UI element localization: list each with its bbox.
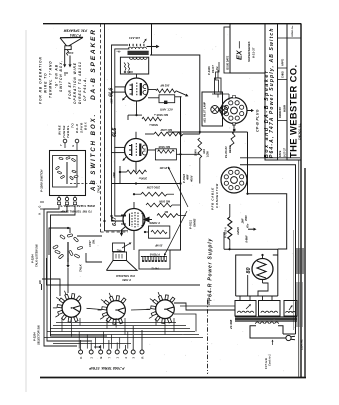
switch selector 3 xyxy=(156,300,175,319)
svg-text:.25 MF: .25 MF xyxy=(159,166,168,170)
title block issue-date cell xyxy=(224,27,230,73)
switch P-3204 talk-listen blades xyxy=(60,235,66,240)
wire arrow from socket xyxy=(248,110,252,112)
svg-text:50MA: 50MA xyxy=(195,149,198,156)
svg-text:CHKD: CHKD xyxy=(281,71,284,78)
wire arrow filter xyxy=(248,228,254,230)
resistor in box plate load xyxy=(155,149,176,160)
svg-text:⊙EL PILOT LAMP: ⊙EL PILOT LAMP xyxy=(204,102,207,123)
resistor long voltage divider xyxy=(154,132,183,136)
svg-text:746-T2: 746-T2 xyxy=(151,267,159,270)
svg-text:'G' ON AB: 'G' ON AB xyxy=(55,64,59,88)
scan speckles xyxy=(123,79,126,82)
transformer primary xyxy=(255,322,259,324)
rectifier circuit box xyxy=(236,255,253,296)
wire transformer B+ arrow xyxy=(147,46,157,48)
svg-text:G: G xyxy=(71,145,75,147)
svg-text:HERE: HERE xyxy=(228,145,232,153)
resistor 50MA adjustable xyxy=(198,138,202,158)
svg-text:SWITCH BOX,: SWITCH BOX, xyxy=(59,60,63,92)
transformer secondary box 1 xyxy=(235,301,256,317)
resistor 6J7 r2 xyxy=(146,203,172,207)
svg-text:500Kω: 500Kω xyxy=(149,123,158,127)
svg-text:1/2W: 1/2W xyxy=(207,151,210,157)
note separator dash xyxy=(64,72,68,74)
svg-text:44+: 44+ xyxy=(116,49,121,52)
speaker P-7089 cone xyxy=(106,261,137,271)
svg-text:6J7: 6J7 xyxy=(112,216,118,226)
svg-text:P64-R Power Supply: P64-R Power Supply xyxy=(208,238,214,301)
svg-text:PFB CABLE: PFB CABLE xyxy=(211,187,215,210)
wire AC run xyxy=(240,165,296,334)
svg-text:9-27-37: 9-27-37 xyxy=(282,148,286,157)
terminal stubs xyxy=(80,340,82,350)
svg-text:FOR EF: FOR EF xyxy=(68,81,72,99)
resistor 6J7 r3 xyxy=(157,214,178,218)
frame top border xyxy=(43,23,301,25)
wire pilot feed xyxy=(216,62,220,92)
svg-text:400V: 400V xyxy=(189,174,193,183)
socket CP-B plug xyxy=(221,98,247,124)
title block underline wires xyxy=(240,157,300,159)
svg-text:AMP: AMP xyxy=(112,172,116,179)
svg-text:PILOT: PILOT xyxy=(211,65,215,73)
svg-text:P67: P67 xyxy=(208,300,211,305)
svg-text:R: R xyxy=(140,357,144,359)
wire selector link 2-3 xyxy=(131,308,150,311)
tube 6L5 amplifier xyxy=(125,139,148,162)
pilot lamp right xyxy=(220,106,228,114)
dashed chassis divider xyxy=(100,24,102,232)
tube leads xyxy=(136,74,138,78)
svg-text:Y: Y xyxy=(59,144,63,146)
transformer interstage 746-TR xyxy=(139,250,170,269)
svg-text:B: B xyxy=(99,357,103,359)
transformer secondary box 3 xyxy=(284,301,297,317)
switch selector 2 xyxy=(107,301,126,320)
wire arrow to EF note xyxy=(69,56,71,65)
svg-text:8-31-37: 8-31-37 xyxy=(252,47,256,58)
svg-text:46P: 46P xyxy=(128,70,133,73)
svg-text:CP-B PLUG: CP-B PLUG xyxy=(256,109,260,132)
svg-text:P-3200 SWITCH: P-3200 SWITCH xyxy=(40,169,44,192)
svg-text:HWM: HWM xyxy=(282,104,286,112)
svg-text:SUPERSEDES: SUPERSEDES xyxy=(247,41,251,62)
svg-text:K: K xyxy=(39,213,42,215)
wires switch drops xyxy=(61,318,63,332)
svg-text:THE WEBSTER CO.: THE WEBSTER CO. xyxy=(288,64,299,158)
svg-text:WIRE TO: WIRE TO xyxy=(44,72,48,93)
svg-text:116-AX4: 116-AX4 xyxy=(129,36,140,40)
svg-text:CHICAGO, ILL.: CHICAGO, ILL. xyxy=(299,123,302,140)
switch box below transformer xyxy=(120,57,148,74)
scan streak right edge xyxy=(304,168,306,377)
svg-text:DATE: DATE xyxy=(279,150,282,157)
wire arrow to bus xyxy=(176,91,186,95)
AC plug xyxy=(286,335,291,340)
transformer output core xyxy=(128,51,149,54)
wires transformer to rectifier xyxy=(239,296,241,301)
svg-text:MΩ 500K⇝: MΩ 500K⇝ xyxy=(153,113,168,117)
svg-text:ACT. ANTI: ACT. ANTI xyxy=(160,108,174,112)
switch P-3204 talk-listen pivot xyxy=(67,242,69,262)
svg-text:OHMS: OHMS xyxy=(193,218,197,227)
svg-text:250Ω 1/2W: 250Ω 1/2W xyxy=(146,186,161,190)
transformer secondary box 2 xyxy=(259,301,281,317)
svg-text:P-3326: P-3326 xyxy=(207,66,211,75)
frame bottom border xyxy=(40,377,306,379)
resistor-capacitor parallel network xyxy=(156,89,176,93)
wire cable lead A xyxy=(105,24,124,231)
svg-text:6L5: 6L5 xyxy=(112,127,118,137)
switch selector 1 xyxy=(62,299,81,318)
svg-text:P-7059-B: P-7059-B xyxy=(149,253,160,256)
svg-text:115ѵ.АС: 115ѵ.АС xyxy=(300,338,304,350)
svg-text:TALK-LISTEN SW.: TALK-LISTEN SW. xyxy=(35,244,39,267)
svg-text:P.M. SPEAKER: P.M. SPEAKER xyxy=(116,274,135,278)
wire bus vertical right xyxy=(180,96,182,183)
terminal K aux xyxy=(40,208,44,210)
wires switch box to cable xyxy=(44,205,77,346)
svg-text:TALK: TALK xyxy=(79,263,83,272)
svg-text:80: 80 xyxy=(246,268,252,274)
paper edge shadow xyxy=(25,30,27,392)
pilot lamp left xyxy=(211,106,219,114)
svg-text:P.M. SPEAKER: P.M. SPEAKER xyxy=(63,29,87,33)
svg-text:6V.: 6V. xyxy=(215,66,219,70)
svg-text:OF P64-A,: OF P64-A, xyxy=(83,77,87,101)
resistor 500K grid xyxy=(142,117,162,121)
svg-text:P-7089Φ: P-7089Φ xyxy=(149,221,160,225)
svg-text:8-8MF: 8-8MF xyxy=(246,235,249,243)
svg-text:450V: 450V xyxy=(245,215,248,222)
tube 6J7 input xyxy=(123,209,145,231)
svg-text:23-988: 23-988 xyxy=(229,319,233,330)
pilot lamp box xyxy=(202,92,223,126)
resistor cathode 6L5 xyxy=(127,170,147,174)
wires lower switch area xyxy=(47,258,201,285)
transformer laminations xyxy=(235,316,297,318)
switch P-3200 bottom terminals xyxy=(57,197,60,200)
wire B run xyxy=(248,132,287,249)
switch P-3200 box xyxy=(50,151,86,196)
svg-text:SELECTOR SW.: SELECTOR SW. xyxy=(37,325,41,345)
tube 80 rectifier xyxy=(252,259,273,280)
socket PFB cable connector xyxy=(221,167,247,193)
wire bus horizontal xyxy=(112,183,181,185)
svg-text:.002 MF: .002 MF xyxy=(160,84,170,88)
fuse block xyxy=(215,78,222,94)
terminal G aux xyxy=(40,201,44,203)
svg-text:P-3204: P-3204 xyxy=(33,332,37,341)
title block EX supersedes cell xyxy=(230,24,265,73)
wires harness to strip xyxy=(78,332,80,349)
svg-text:44Ω: 44Ω xyxy=(117,249,122,252)
svg-text:.05 MF: .05 MF xyxy=(155,244,163,248)
svg-text:DRWG No.: DRWG No. xyxy=(292,25,294,36)
svg-text:FOR RB OPERATION: FOR RB OPERATION xyxy=(39,56,43,104)
wire heater bus xyxy=(168,131,248,133)
transformer output primary xyxy=(129,44,131,46)
svg-text:DIRECT TO 4B1S1: DIRECT TO 4B1S1 xyxy=(78,61,82,104)
svg-text:ISSUE DATE: ISSUE DATE xyxy=(226,55,229,70)
wires selector contact stubs xyxy=(55,315,58,317)
svg-text:P-7023-A: P-7023-A xyxy=(224,227,227,238)
svg-text:AB SWITCH BOX.: AB SWITCH BOX. xyxy=(91,113,97,192)
speaker DA-B cone xyxy=(60,36,83,38)
terminal strip P-7068 xyxy=(79,350,83,354)
svg-text:Cоrd №-1: Cоrd №-1 xyxy=(269,354,272,366)
svg-text:A2026: A2026 xyxy=(236,227,240,236)
svg-text:G: G xyxy=(39,206,42,208)
svg-text:P-7089: P-7089 xyxy=(122,278,131,282)
terminal Y xyxy=(63,139,67,143)
coil 44 ohm box xyxy=(113,243,125,252)
transformer output secondary xyxy=(129,58,133,60)
svg-text:SW.: SW. xyxy=(93,239,96,244)
title block drawing title cell xyxy=(265,24,278,160)
resistor cathode box 6J7 xyxy=(149,226,170,238)
switch P-3200 contacts xyxy=(59,157,63,160)
svg-text:Box and DA-B Speaker: Box and DA-B Speaker xyxy=(264,70,270,159)
wire arrow to RB note xyxy=(64,49,66,64)
wire supply top xyxy=(224,248,278,250)
wire cable lead C xyxy=(115,49,130,216)
svg-text:MΩ 500K: MΩ 500K xyxy=(158,200,170,204)
svg-text:45ѵ: 45ѵ xyxy=(246,223,249,229)
resistor filter vertical xyxy=(228,217,232,240)
svg-text:TALK: TALK xyxy=(97,184,101,193)
svg-text:MΩ 1/2W: MΩ 1/2W xyxy=(160,128,172,132)
svg-text:DA-B SPEAKER: DA-B SPEAKER xyxy=(90,28,97,100)
wire talk switch to selector xyxy=(67,268,69,293)
dash-dot section divider xyxy=(207,300,209,374)
svg-text:AMP: AMP xyxy=(110,98,114,105)
svg-text:6L6: 6L6 xyxy=(109,87,115,97)
svg-text:CONNECTOR: CONNECTOR xyxy=(215,183,219,208)
svg-text:INC: INC xyxy=(39,280,42,284)
title block date/drwn/chkd/appd cells xyxy=(278,24,288,160)
junction dots xyxy=(136,114,138,116)
svg-text:EX —: EX — xyxy=(235,40,244,60)
wire cable lead B xyxy=(112,45,129,221)
svg-text:OPERATION WIRE: OPERATION WIRE xyxy=(73,62,77,104)
wires input leads xyxy=(121,215,126,217)
wire to transformer xyxy=(174,303,235,310)
svg-text:K: K xyxy=(79,357,83,359)
wire plate supply corner xyxy=(150,55,200,132)
svg-text:APP'D: APP'D xyxy=(281,59,284,66)
svg-text:P-3204: P-3204 xyxy=(31,254,35,263)
svg-text:BOX: BOX xyxy=(84,121,88,130)
terminal G xyxy=(75,139,79,143)
svg-text:P-73E4: P-73E4 xyxy=(70,33,81,37)
svg-text:P-7068 TERM. STRIP: P-7068 TERM. STRIP xyxy=(89,366,125,370)
arrow terminal xyxy=(94,346,99,348)
wires primary to cord xyxy=(250,326,286,338)
wires selector harness xyxy=(53,325,186,327)
wire selector link 1-2 xyxy=(87,308,102,309)
svg-text:WIRE THESE TERMNL'S: WIRE THESE TERMNL'S xyxy=(60,204,95,208)
svg-text:TO 'RB' TERMNL STRIP: TO 'RB' TERMNL STRIP xyxy=(60,210,92,214)
svg-text:TERMNL 'Y'AND: TERMNL 'Y'AND xyxy=(49,60,53,98)
frame right border xyxy=(300,24,302,378)
wires talk-listen xyxy=(49,228,70,255)
wire from frame to bus xyxy=(151,24,153,55)
title block company cell xyxy=(287,24,301,160)
resistor 6J7 r1 xyxy=(141,192,167,196)
wire squiggle from cone xyxy=(67,50,69,56)
tube 6L6 output xyxy=(125,78,148,101)
svg-text:2000ω: 2000ω xyxy=(138,177,148,181)
